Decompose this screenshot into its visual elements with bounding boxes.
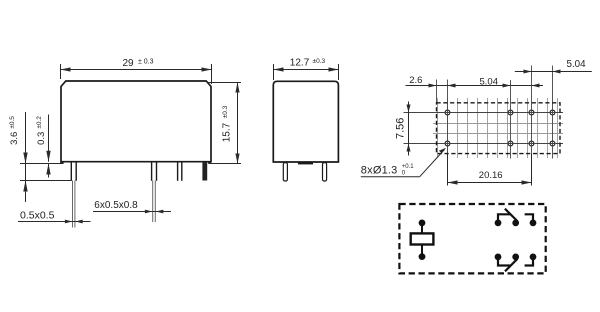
bottom pole switch blade: [505, 259, 517, 272]
dimension 7.56: [407, 102, 411, 156]
svg-text:29: 29: [123, 58, 135, 69]
PCB outline dashed box: [437, 103, 561, 154]
dimension 3.6 line: [25, 112, 27, 181]
svg-text:0.5x0.5: 0.5x0.5: [20, 209, 55, 221]
svg-text:7.56: 7.56: [394, 118, 406, 139]
dimension 3.6 +-0.5 extension lines: [20, 112, 72, 202]
svg-text:±0.3: ±0.3: [313, 58, 326, 65]
PCB hole row center lines: [404, 113, 564, 144]
coil terminal bottom dot: [419, 253, 426, 260]
dimension 20.16: [448, 154, 532, 186]
svg-text:2.6: 2.6: [409, 75, 422, 86]
standoff foot left: [60, 162, 63, 164]
dimension 2.6 and lower 5.04 shared line: [406, 84, 544, 88]
dimension 12.7 +-0.3: [274, 64, 339, 80]
svg-text:20.16: 20.16: [479, 170, 503, 181]
svg-text:6x0.5x0.8: 6x0.5x0.8: [94, 200, 138, 211]
pin 2 shoulder: [152, 162, 157, 181]
dimension 29 +-0.3: [61, 64, 212, 84]
top pole contact dots: [495, 220, 537, 227]
side view pin back: [323, 163, 327, 181]
svg-text:5.04: 5.04: [480, 76, 499, 87]
PCB grid light vertical lines: [438, 98, 558, 158]
top pole switch blade: [505, 209, 518, 221]
bottom pole NO hook: [525, 257, 533, 266]
PCB grid light horizontal lines: [433, 124, 563, 134]
relay body side view: [273, 81, 338, 162]
svg-text:+0.1: +0.1: [402, 164, 415, 170]
svg-text:8xØ1.3: 8xØ1.3: [361, 165, 398, 177]
pin 2 thin lead: [153, 181, 156, 223]
bottom pole contact dots: [495, 254, 537, 261]
pin 1 thin lead: [73, 181, 75, 228]
top pole common arm: [498, 214, 510, 223]
svg-text:12.7: 12.7: [290, 58, 310, 69]
standoff foot right: [208, 162, 211, 164]
PCB holes 8x dia 1.3: [445, 110, 555, 146]
bottom pole common arm: [498, 257, 510, 266]
dimension 15.7 +-0.3: [207, 83, 241, 164]
coil rectangle: [411, 233, 434, 244]
coil terminal top dot: [419, 220, 426, 227]
coil wires: [421, 223, 423, 257]
top pole NO hook: [525, 214, 533, 223]
pin 1 shoulder (front view): [71, 162, 76, 181]
pin 4 shoulder (solid): [202, 162, 207, 181]
wiring diagram dashed box: [399, 204, 545, 273]
svg-text:± 0.3: ± 0.3: [138, 59, 154, 66]
svg-text:5.04: 5.04: [567, 59, 587, 70]
relay body front view: [61, 81, 211, 162]
side view center standoff: [298, 162, 313, 165]
pin 3 shoulder: [178, 162, 182, 181]
dimension upper 5.04: [515, 70, 592, 74]
dimension 0.3 +-0.2: [46, 115, 50, 178]
side view pin front: [283, 163, 287, 181]
PCB hole column center lines: [437, 66, 553, 186]
